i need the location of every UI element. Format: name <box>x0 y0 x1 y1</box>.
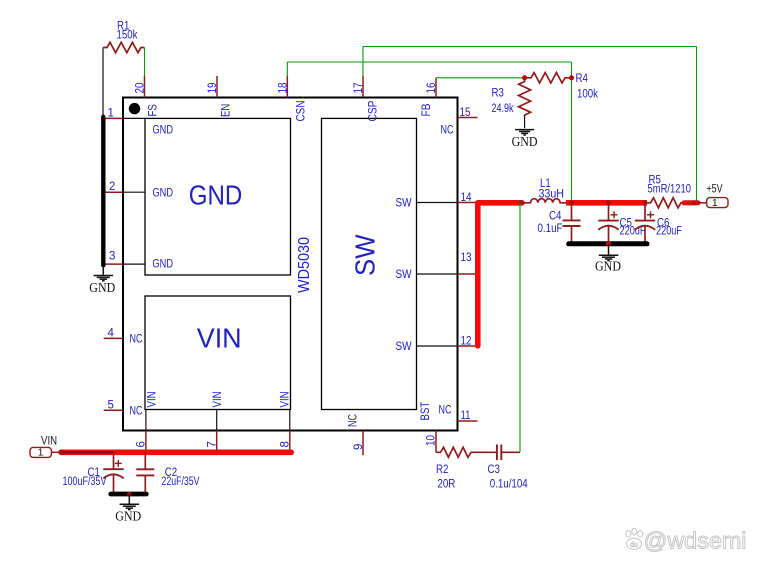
svg-text:0.1uF: 0.1uF <box>538 223 563 235</box>
svg-text:11: 11 <box>461 410 471 422</box>
resistor R2 <box>436 447 496 457</box>
svg-text:10: 10 <box>426 435 438 446</box>
wire R3 to ground <box>524 115 526 128</box>
svg-text:R3: R3 <box>492 88 504 100</box>
junction node C6/R5 <box>643 200 648 205</box>
wire green CSP horizontal <box>363 46 697 48</box>
svg-text:VIN: VIN <box>280 391 292 407</box>
svg-text:1: 1 <box>108 108 114 120</box>
pin 20 stub <box>144 76 146 98</box>
svg-text:NC: NC <box>441 125 454 137</box>
wire pin1 IC edge to GND block <box>123 117 145 119</box>
capacitor C6 (electrolytic) <box>635 203 655 244</box>
pin 14 stub <box>458 202 479 204</box>
pin 19 stub <box>216 76 218 98</box>
pin 13 stub <box>458 273 478 275</box>
svg-text:3: 3 <box>109 251 115 263</box>
svg-text:4: 4 <box>108 328 115 340</box>
svg-text:R4: R4 <box>576 73 589 85</box>
svg-text:SW: SW <box>396 198 412 210</box>
wire pin14 SW block to IC edge <box>417 202 458 204</box>
svg-text:2: 2 <box>109 181 115 193</box>
svg-text:18: 18 <box>277 83 289 94</box>
svg-text:du: du <box>630 542 638 549</box>
svg-text:5mR/1210: 5mR/1210 <box>648 184 692 196</box>
wire pin13 SW block to IC edge <box>417 273 458 275</box>
svg-text:R2: R2 <box>436 464 448 476</box>
pin 4 stub <box>104 337 123 339</box>
svg-text:GND: GND <box>89 280 115 295</box>
pin 5 stub <box>104 409 123 411</box>
ground bus bar output caps <box>569 241 647 246</box>
svg-text:VIN: VIN <box>197 323 242 354</box>
svg-text:8: 8 <box>280 441 292 447</box>
svg-text:NC: NC <box>439 405 452 417</box>
wire pin8 VIN block to IC edge <box>289 410 291 431</box>
svg-text:C4: C4 <box>549 211 562 223</box>
junction node C5 <box>606 200 611 205</box>
ground bus bar input caps <box>111 492 147 497</box>
svg-text:1: 1 <box>38 447 44 459</box>
ground symbol (input) <box>120 494 140 510</box>
svg-text:16: 16 <box>426 83 438 94</box>
svg-text:NC: NC <box>130 406 143 418</box>
junction node C4/CSN sense <box>569 200 574 205</box>
wire VIN overlay dark segment <box>61 451 114 453</box>
svg-text:0.1u/104: 0.1u/104 <box>490 479 529 491</box>
resistor R5 <box>645 198 684 208</box>
ground symbol (left bus) <box>94 266 114 281</box>
svg-text:5: 5 <box>108 400 114 412</box>
capacitor C5 (electrolytic) <box>598 203 618 244</box>
wire green pin17 up <box>362 47 364 77</box>
svg-text:VIN: VIN <box>212 391 224 407</box>
thick wire L1 to R5 <box>566 200 647 206</box>
wire pin12 SW block to IC edge <box>417 345 458 347</box>
wire pin3 IC edge to GND block <box>123 263 145 265</box>
capacitor C2 <box>136 452 154 492</box>
svg-text:SW: SW <box>396 341 412 353</box>
junction node VIN port <box>59 450 64 455</box>
wire node to +5V port <box>698 202 707 204</box>
capacitor C3 <box>497 445 520 461</box>
svg-text:33uH: 33uH <box>539 188 565 200</box>
inductor L1 <box>522 199 567 203</box>
wire pin7 VIN block to IC edge <box>216 410 218 431</box>
svg-text:FS: FS <box>148 104 160 117</box>
pin 15 stub <box>458 117 478 119</box>
watermark paw icon <box>626 528 643 549</box>
svg-text:150k: 150k <box>117 30 138 42</box>
svg-text:C3: C3 <box>488 464 500 476</box>
svg-text:100uF/35V: 100uF/35V <box>63 476 107 488</box>
VIN sub-block <box>145 296 291 410</box>
svg-text:NC: NC <box>130 334 143 346</box>
wire green pin16 FB horizontal <box>436 77 525 79</box>
resistor R4 <box>525 73 572 83</box>
IC U1 WD5030 outer body <box>123 98 458 431</box>
svg-text:GND: GND <box>115 508 141 523</box>
wire green R1 to pin 20 <box>144 48 146 77</box>
port +5V symbol <box>707 198 728 208</box>
svg-text:15: 15 <box>460 107 471 119</box>
svg-text:CSP: CSP <box>368 100 380 121</box>
wire green CSP down to +5V node <box>696 47 698 202</box>
ground symbol (R3) <box>515 130 534 135</box>
svg-text:100k: 100k <box>577 89 598 101</box>
ground bus bar pins 1-3 <box>101 117 105 265</box>
svg-text:14: 14 <box>461 192 473 204</box>
svg-text:GND: GND <box>153 259 174 271</box>
svg-text:7: 7 <box>207 441 219 447</box>
wire R1 left leg to pin1 bus <box>102 48 104 118</box>
wire green CSN horizontal <box>287 61 571 63</box>
svg-text:13: 13 <box>461 252 472 264</box>
svg-text:1: 1 <box>712 197 718 209</box>
svg-text:20R: 20R <box>437 479 455 491</box>
junction node output ground <box>606 241 611 246</box>
ground symbol (output) <box>599 244 619 261</box>
svg-text:19: 19 <box>207 83 219 94</box>
svg-text:+5V: +5V <box>707 183 723 195</box>
junction node +5V/CSP <box>692 200 697 205</box>
pin 10 stub <box>435 431 437 453</box>
pin 11 stub <box>458 420 478 422</box>
svg-text:20: 20 <box>135 83 147 94</box>
pin 3 stub <box>104 263 123 265</box>
pin 18 stub <box>286 76 288 98</box>
wire green bootstrap C3 to SW node <box>519 203 521 452</box>
wire pin6 VIN block to IC edge <box>145 410 147 431</box>
svg-text:EN: EN <box>221 104 233 117</box>
pin 8 stub <box>289 431 291 451</box>
thick wire SW node elbow pin14 to pin12 <box>478 203 522 346</box>
pin 7 stub <box>216 431 218 451</box>
svg-text:WD5030: WD5030 <box>296 237 313 293</box>
port VIN symbol <box>30 447 51 457</box>
SW sub-block <box>322 118 417 409</box>
svg-text:GND: GND <box>153 188 174 200</box>
thick wire VIN rail <box>61 449 291 455</box>
svg-text:22uF/35V: 22uF/35V <box>162 476 200 488</box>
svg-text:SW: SW <box>396 269 412 281</box>
capacitor C1 (electrolytic) <box>103 452 123 492</box>
svg-text:220uF: 220uF <box>656 226 682 238</box>
capacitor C4 <box>563 203 581 244</box>
resistor R3 <box>519 78 531 115</box>
wire green pin18 up <box>286 62 288 77</box>
svg-text:24.9k: 24.9k <box>492 103 514 115</box>
pin 1 indicator dot <box>129 103 140 114</box>
svg-text:GND: GND <box>595 259 621 274</box>
svg-text:FB: FB <box>421 103 433 116</box>
wire green CSN down to L1/R5 node <box>571 62 573 201</box>
svg-text:GND: GND <box>153 125 174 137</box>
svg-text:@wdsemi: @wdsemi <box>644 528 747 554</box>
GND sub-block <box>145 118 291 275</box>
pin 16 stub <box>435 78 437 98</box>
pin 17 stub <box>362 76 364 98</box>
svg-text:NC: NC <box>348 414 360 427</box>
pin 9 stub <box>362 431 364 456</box>
pin 6 stub <box>145 431 147 451</box>
pin 12 stub <box>458 345 478 347</box>
svg-text:BST: BST <box>420 402 432 421</box>
junction node SW/bootstrap <box>519 200 524 205</box>
svg-text:GND: GND <box>512 134 538 149</box>
svg-text:17: 17 <box>353 83 365 94</box>
svg-text:6: 6 <box>136 441 148 447</box>
wire pin2 IC edge to GND block <box>123 191 145 193</box>
junction node input ground <box>127 492 132 497</box>
junction node R4/CSN <box>569 75 574 80</box>
svg-text:CSN: CSN <box>296 101 308 122</box>
svg-text:SW: SW <box>350 234 381 276</box>
svg-text:9: 9 <box>353 444 365 450</box>
svg-text:12: 12 <box>461 336 472 348</box>
svg-text:GND: GND <box>189 180 243 211</box>
pin 2 stub <box>104 191 123 193</box>
junction node FB/R3/R4 <box>522 75 527 80</box>
resistor R1 <box>103 42 145 52</box>
wire VIN port lead <box>51 451 61 453</box>
pin 1 stub <box>104 117 123 119</box>
svg-text:220uF: 220uF <box>620 226 646 238</box>
thick wire R5 to +5V port node <box>684 200 698 205</box>
svg-text:VIN: VIN <box>147 391 159 407</box>
